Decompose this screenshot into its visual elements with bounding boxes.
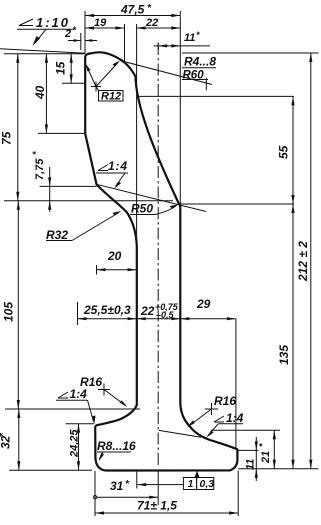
R12 center cross bbox=[91, 86, 101, 88]
svg-text:29: 29 bbox=[196, 297, 211, 311]
extension line x=238.2 below foot bbox=[237, 471, 239, 517]
right foot 1:4 slope extension line bbox=[159, 430, 201, 437]
svg-text:19: 19 bbox=[94, 17, 107, 29]
extension line x=235.9 (foot right edge plane, upper part) bbox=[235, 319, 237, 449]
svg-text:2: 2 bbox=[64, 28, 71, 40]
left foot slope symbol 1:4 bbox=[58, 392, 68, 398]
svg-text:R4...8: R4...8 bbox=[184, 55, 216, 69]
svg-text:55: 55 bbox=[277, 145, 291, 159]
dimension 40 bbox=[38, 132, 85, 134]
dimension 25,5±0,3 bbox=[77, 302, 79, 325]
svg-text:22: 22 bbox=[145, 17, 158, 29]
svg-text:0,3: 0,3 bbox=[200, 478, 215, 490]
head underside slope symbol 1:4 bbox=[98, 165, 108, 171]
svg-text:R16: R16 bbox=[214, 394, 236, 408]
dimension 22 (top) bbox=[137, 27, 181, 29]
extension line x=180.3 (web right plane) bbox=[179, 11, 181, 204]
svg-text:22: 22 bbox=[140, 304, 155, 318]
dimension 15 bbox=[62, 82, 85, 84]
svg-text:*: * bbox=[73, 25, 77, 35]
reference line y=200.8 (head bottom level) bbox=[4, 200, 173, 202]
svg-text:40: 40 bbox=[33, 85, 47, 100]
svg-text:*: * bbox=[31, 151, 41, 155]
svg-text:20: 20 bbox=[107, 249, 122, 263]
R12 label box and leader bbox=[99, 91, 124, 102]
svg-text:1:10: 1:10 bbox=[36, 15, 69, 30]
dimension 29 bbox=[180, 318, 236, 320]
dimension 55 bbox=[292, 96, 294, 204]
straightness tolerance frame 1|0,3 bbox=[183, 478, 196, 490]
svg-text:135: 135 bbox=[277, 345, 291, 365]
top reference line right bbox=[182, 52, 319, 54]
svg-text:R50: R50 bbox=[131, 202, 153, 216]
reference line y=430.5 (21* top) bbox=[211, 429, 280, 431]
svg-text:1:4: 1:4 bbox=[108, 159, 127, 173]
bottom right reference line bbox=[238, 468, 318, 470]
svg-text:1:4: 1:4 bbox=[70, 387, 88, 401]
svg-text:R32: R32 bbox=[46, 228, 68, 242]
dimension 11* (centerline to web right) bbox=[154, 45, 210, 47]
svg-text:212 ± 2: 212 ± 2 bbox=[296, 241, 310, 282]
dimension 7,75* (arrows outside) bbox=[40, 185, 97, 187]
slope symbol 1:10 bbox=[19, 19, 33, 26]
extension line x=136.6 (web left plane) bbox=[136, 24, 138, 246]
svg-text:–0,5: –0,5 bbox=[156, 310, 175, 320]
dimension 22 +0,75/-0,5 (web) bbox=[137, 318, 181, 320]
dimension 32* bbox=[9, 469, 92, 471]
svg-text:105: 105 bbox=[2, 302, 16, 322]
dimension 19 bbox=[85, 27, 125, 29]
svg-text:15: 15 bbox=[54, 61, 68, 75]
svg-text:47,5: 47,5 bbox=[120, 3, 145, 17]
svg-text:1:4: 1:4 bbox=[226, 411, 244, 425]
dimension 31* bbox=[94, 471, 96, 516]
svg-text:R12: R12 bbox=[101, 91, 121, 103]
extension line x=80.8 for dim 2* bbox=[80, 33, 82, 50]
reference line y=409 (foot top left level) bbox=[5, 408, 140, 410]
svg-text:25,5±0,3: 25,5±0,3 bbox=[83, 303, 131, 317]
centerline extension below foot bbox=[157, 470, 159, 505]
head underside 1:4 extension line bbox=[97, 184, 207, 211]
dimension 47,5* bbox=[85, 15, 180, 17]
reference line y=204 (junction level right) bbox=[179, 203, 294, 205]
svg-text:71± 1,5: 71± 1,5 bbox=[137, 499, 177, 513]
R12 arrow to crown bbox=[96, 63, 118, 87]
dimension 75 bbox=[17, 54, 19, 201]
svg-text:75: 75 bbox=[0, 131, 14, 145]
tolerance frame leader left with arrow at x=135 bbox=[137, 484, 183, 486]
svg-text:R8...16: R8...16 bbox=[97, 439, 136, 453]
crown tangent reference line with end cross bbox=[120, 61, 212, 85]
dimension 71±1,5 bbox=[95, 512, 238, 514]
dimension 24,25 bbox=[78, 424, 80, 471]
leader of 1:10 symbol bbox=[35, 29, 47, 43]
right foot slope symbol 1:4 bbox=[214, 416, 224, 422]
dimension 20 bbox=[96, 265, 98, 275]
svg-text:1: 1 bbox=[188, 478, 194, 490]
reference line y=423.8 (24,25 top) bbox=[66, 423, 95, 425]
extension line x=124.5 (crown point, for dim 19) bbox=[124, 24, 126, 62]
svg-text:11: 11 bbox=[245, 459, 257, 470]
dimension 11 (arrows outside) bbox=[255, 437, 257, 481]
rail profile outer contour bbox=[85, 52, 237, 470]
svg-text:31: 31 bbox=[110, 479, 124, 493]
R12 arrow to left edge bbox=[87, 66, 97, 87]
tolerance frame leader up to foot base bbox=[196, 471, 198, 478]
svg-text:24,25: 24,25 bbox=[69, 429, 81, 458]
reference line y=450.4 (11 top) bbox=[238, 449, 259, 451]
top reference line left (head top level) bbox=[4, 53, 85, 55]
svg-text:*: * bbox=[258, 443, 268, 447]
reference line y=96.4 (55 top) bbox=[138, 95, 294, 97]
dimension 135 bbox=[292, 204, 294, 469]
centerline (rail axis, dash-dot) bbox=[157, 43, 159, 468]
svg-text:*: * bbox=[196, 30, 200, 40]
extension line x=85 (head left corner) bbox=[84, 11, 86, 53]
dimension 105 bbox=[17, 201, 19, 409]
svg-text:21: 21 bbox=[260, 451, 272, 464]
dimension 21* bbox=[273, 430, 275, 468]
svg-text:7,75: 7,75 bbox=[34, 158, 46, 180]
top surface 1:10 slope line bbox=[0, 49, 85, 53]
dimension 212 ± 2 bbox=[310, 53, 312, 469]
svg-text:11: 11 bbox=[184, 32, 195, 44]
